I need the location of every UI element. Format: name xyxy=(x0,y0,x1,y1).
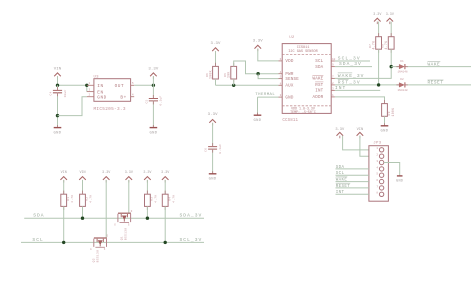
resistor 10K (WAKE pullup) xyxy=(382,33,395,67)
wire OUT to 3.3V node xyxy=(134,84,153,86)
pin 4 PWR stub xyxy=(279,73,283,75)
pin 9 SDA stub xyxy=(331,66,335,68)
wire Q2 gate feed xyxy=(105,180,107,238)
svg-text:3.3V: 3.3V xyxy=(125,171,134,175)
supply 3.3V (AUX pullup) xyxy=(210,42,221,67)
svg-text:3.3V: 3.3V xyxy=(386,13,395,17)
svg-text:SCL: SCL xyxy=(32,237,43,243)
supply 3.3V (Q2 gate) xyxy=(102,171,111,183)
wire + node SDA_3V xyxy=(335,61,372,67)
svg-text:JP3: JP3 xyxy=(373,142,381,146)
wire + node SCL (JP3 pin5) xyxy=(336,172,369,176)
svg-text:INT: INT xyxy=(336,191,345,195)
svg-text:100K: 100K xyxy=(391,108,395,117)
node SDA 3.3V-pullup junction xyxy=(146,217,149,220)
svg-text:3.3V: 3.3V xyxy=(253,39,264,43)
wire + node SCL_3V xyxy=(335,55,370,61)
svg-text:RST: RST xyxy=(315,84,323,88)
svg-text:I2C GAS SENSOR: I2C GAS SENSOR xyxy=(288,50,318,54)
pin 1 IN stub xyxy=(87,84,94,86)
svg-text:PWR: PWR xyxy=(285,73,293,77)
supply 3.3V (JP3 pin1) xyxy=(335,128,369,150)
svg-text:SCL: SCL xyxy=(336,172,345,176)
svg-text:R3: R3 xyxy=(151,197,154,201)
svg-text:3.3V: 3.3V xyxy=(208,113,219,117)
supply 3.3V (RST pullup) xyxy=(373,13,382,37)
pin 3 pad xyxy=(379,160,383,164)
resistor 100K (AUX divider) xyxy=(206,63,219,86)
node cap/gnd junction xyxy=(56,114,59,117)
svg-text:ADDR: ADDR xyxy=(313,96,324,100)
svg-text:U3: U3 xyxy=(94,75,100,79)
svg-text:C4: C4 xyxy=(50,91,53,95)
svg-text:BSS138: BSS138 xyxy=(125,228,128,241)
supply VIN (JP3 pin2) xyxy=(357,128,369,156)
node RST junction xyxy=(377,83,380,86)
resistor 4.7K (SCL 3.3V pullup) xyxy=(162,180,175,242)
svg-text:3.3V: 3.3V xyxy=(210,42,221,46)
wire node to U3 IN xyxy=(58,84,87,86)
node VIN junction xyxy=(56,84,59,87)
ground (regulator output) xyxy=(149,125,157,135)
svg-text:SDA_3V: SDA_3V xyxy=(339,61,362,67)
node 3.3V junction xyxy=(152,84,155,87)
node THERMAL (GND wire) xyxy=(255,93,278,115)
pin 5 SENSE stub xyxy=(279,78,283,80)
svg-text:0.1uF: 0.1uF xyxy=(219,144,222,154)
pin 1 ADDR stub xyxy=(331,96,335,98)
supply 3.3V (Q1 gate) xyxy=(125,171,134,183)
wire VIN down to node xyxy=(57,76,59,85)
svg-text:GND: GND xyxy=(54,131,62,135)
wire ADDR to resistor xyxy=(335,97,385,104)
svg-text:WAKE: WAKE xyxy=(428,62,441,67)
pin 6 VDD stub xyxy=(279,60,283,62)
resistor 10K (RST pullup) xyxy=(369,33,382,85)
svg-text:3.3V: 3.3V xyxy=(102,171,111,175)
svg-text:MIC5205-3.3: MIC5205-3.3 xyxy=(94,107,126,112)
svg-text:U2: U2 xyxy=(289,36,295,40)
svg-text:SENSE: SENSE xyxy=(285,78,299,82)
ground (regulator input) xyxy=(54,125,62,135)
wire SENSE branch xyxy=(258,74,278,79)
svg-text:GND: GND xyxy=(285,96,293,100)
wire + node WAKE (JP3 pin6) xyxy=(336,177,369,183)
svg-text:1N4148: 1N4148 xyxy=(398,89,408,92)
svg-text:OUT: OUT xyxy=(115,84,125,89)
svg-text:3.3V: 3.3V xyxy=(373,13,382,17)
svg-text:VIN: VIN xyxy=(54,67,62,71)
capacitor C6 0.1uF xyxy=(205,143,222,173)
node IN/EN junction xyxy=(85,84,88,87)
svg-text:10K: 10K xyxy=(227,71,231,78)
svg-text:VIN: VIN xyxy=(61,171,67,175)
wire Q1 gate feed xyxy=(128,180,130,213)
svg-text:BSS138: BSS138 xyxy=(97,250,100,263)
svg-text:INT: INT xyxy=(315,90,323,94)
svg-text:0.1uF: 0.1uF xyxy=(160,95,163,105)
node SDA VIN-pullup junction xyxy=(81,217,84,220)
pin 7 WAKE stub xyxy=(331,77,335,79)
svg-text:Q2: Q2 xyxy=(92,258,95,262)
supply VIN (SCL pullup) xyxy=(60,171,67,183)
pin 2 pad xyxy=(379,154,383,158)
ground (JP3 pin3) xyxy=(396,176,403,184)
svg-text:B+: B+ xyxy=(120,96,126,101)
resistor 4.7K (SDA 3.3V pullup) xyxy=(145,180,158,218)
svg-text:IN: IN xyxy=(97,84,103,89)
wire + node WAKE_3V xyxy=(335,67,391,79)
pin 8 AUX stub xyxy=(279,84,283,86)
node AUX rail junction xyxy=(232,84,235,87)
node WAKE junction xyxy=(390,65,393,68)
pin 3 EN stub xyxy=(87,91,94,93)
svg-text:4.7K: 4.7K xyxy=(372,41,376,50)
svg-text:SDA: SDA xyxy=(315,66,323,70)
svg-text:Q1: Q1 xyxy=(120,236,123,240)
svg-text:D2: D2 xyxy=(400,78,404,81)
supply VIN (SDA pullup) xyxy=(79,171,86,183)
resistor 4.7K (SCL VIN pullup) xyxy=(61,180,74,242)
svg-text:GND: GND xyxy=(149,131,157,135)
pin 4 B+ stub xyxy=(131,96,135,98)
wire IN-EN tie xyxy=(86,85,88,91)
pin 10 SCL stub xyxy=(331,60,335,62)
svg-text:100K: 100K xyxy=(208,70,212,79)
svg-text:AUX: AUX xyxy=(285,85,293,89)
svg-text:SCL_3V: SCL_3V xyxy=(338,55,361,61)
capacitor C5 0.1uF xyxy=(146,85,163,127)
svg-text:1N4148: 1N4148 xyxy=(398,71,408,74)
svg-text:GND: GND xyxy=(396,179,403,183)
svg-text:3.3V: 3.3V xyxy=(148,67,159,71)
wire + node SDA (JP3 pin4) xyxy=(336,166,369,170)
wire + node RESET (JP3 pin7) xyxy=(336,183,369,189)
pin 7 pad xyxy=(379,186,383,190)
pin 3 INT stub xyxy=(331,89,335,91)
svg-text:TEMP: -5~50°C: TEMP: -5~50°C xyxy=(290,110,316,114)
IC U2 CCS811 I2C gas sensor xyxy=(282,36,331,123)
wire + node INT (JP3 pin8) xyxy=(336,191,369,195)
capacitor C4 10uF xyxy=(50,85,67,127)
pin 2 GND stub xyxy=(87,96,94,98)
wire SDA row xyxy=(24,217,204,219)
pin 2 RST stub xyxy=(331,84,335,86)
svg-text:GND: GND xyxy=(97,96,107,101)
svg-text:GND: GND xyxy=(254,119,262,123)
diode D2 1N4148 (RESET) xyxy=(396,78,471,92)
pin 1 pad xyxy=(379,148,383,152)
pin 5 pad xyxy=(379,173,383,177)
resistor 10K (PWR/SENSE divider) xyxy=(224,61,279,85)
node PWR/SENSE junction xyxy=(256,72,259,75)
pin 6 pad xyxy=(379,179,383,183)
svg-text:THERMAL: THERMAL xyxy=(255,93,275,97)
IC U3 voltage regulator MIC5205-3.3 xyxy=(94,75,131,111)
supply 3.3V (WAKE pullup) xyxy=(386,13,395,37)
svg-text:VIN: VIN xyxy=(357,128,364,132)
svg-text:SDA_3V: SDA_3V xyxy=(180,213,203,219)
pin 4 pad xyxy=(379,167,383,171)
svg-text:4.7K: 4.7K xyxy=(155,194,158,202)
node SCL 3.3V-pullup junction xyxy=(164,241,167,244)
diode D1 1N4148 (WAKE) xyxy=(391,60,471,74)
wire SCL row xyxy=(21,241,204,243)
svg-text:SDA: SDA xyxy=(33,213,44,219)
supply 3.3V (decoupling cap) xyxy=(208,113,219,146)
wire JP3 pin3 to ground xyxy=(384,163,400,176)
svg-text:3.3V: 3.3V xyxy=(143,171,152,175)
resistor 4.7K (SDA VIN pullup) xyxy=(80,180,93,218)
svg-text:4.7K: 4.7K xyxy=(90,194,93,202)
svg-text:VIN: VIN xyxy=(79,171,85,175)
svg-text:WAKE: WAKE xyxy=(336,179,348,183)
svg-text:RESET: RESET xyxy=(428,81,444,86)
svg-text:GND: GND xyxy=(381,130,389,134)
svg-text:SDA: SDA xyxy=(336,166,345,170)
svg-text:R1: R1 xyxy=(67,197,70,201)
connector JP3 xyxy=(369,142,389,202)
svg-text:CCS811: CCS811 xyxy=(282,119,298,123)
supply 3.3V (SDA_3V pullup) xyxy=(143,171,152,183)
svg-text:SCL: SCL xyxy=(315,60,323,64)
ground (CCS811 thermal) xyxy=(254,113,262,123)
wire + node RST_3V xyxy=(335,80,399,86)
transistor Q1 BSS138 (SDA) xyxy=(114,210,133,240)
svg-text:RST_3V: RST_3V xyxy=(338,80,361,86)
transistor Q2 BSS138 (SCL) xyxy=(90,235,109,263)
resistor 10K (ADDR pulldown) xyxy=(382,100,395,125)
svg-text:3.3V: 3.3V xyxy=(335,128,345,132)
svg-text:INT: INT xyxy=(335,85,346,91)
svg-text:4.7K: 4.7K xyxy=(172,194,175,202)
svg-text:WAKE_3V: WAKE_3V xyxy=(338,73,365,79)
pin 8 pad xyxy=(379,192,383,196)
svg-text:3.3V: 3.3V xyxy=(161,171,170,175)
svg-text:GND: GND xyxy=(209,178,217,182)
pin 3 GND stub xyxy=(279,96,283,98)
svg-text:WAKE: WAKE xyxy=(313,78,324,82)
node RESET label xyxy=(428,80,444,86)
svg-text:4.7K: 4.7K xyxy=(71,194,74,202)
pin 5 OUT stub xyxy=(131,84,135,86)
svg-text:4.7K: 4.7K xyxy=(384,41,388,50)
svg-text:RESET: RESET xyxy=(336,185,350,189)
svg-text:VDD: VDD xyxy=(285,60,293,64)
supply 3.3V (VDD) xyxy=(253,39,279,61)
wire gnd loop to U3 GND pin xyxy=(58,97,87,116)
svg-text:C6: C6 xyxy=(205,148,208,152)
svg-text:10uF: 10uF xyxy=(64,89,67,97)
node SCL VIN-pullup junction xyxy=(62,241,65,244)
svg-text:R2: R2 xyxy=(86,197,89,201)
supply 3.3V (SCL_3V pullup) xyxy=(161,171,170,183)
supply 3.3V (regulator output) xyxy=(148,67,159,85)
ground (ADDR resistor) xyxy=(381,123,389,133)
svg-text:D1: D1 xyxy=(400,60,404,63)
svg-text:SCL_3V: SCL_3V xyxy=(180,237,203,243)
svg-text:R4: R4 xyxy=(168,197,171,201)
ground (decoupling cap) xyxy=(209,171,217,181)
wire AUX rail xyxy=(216,84,279,86)
wire + node INT xyxy=(335,85,380,91)
svg-text:C5: C5 xyxy=(146,99,149,103)
supply VIN (regulator input) xyxy=(54,67,62,78)
node WAKE label xyxy=(428,62,441,68)
